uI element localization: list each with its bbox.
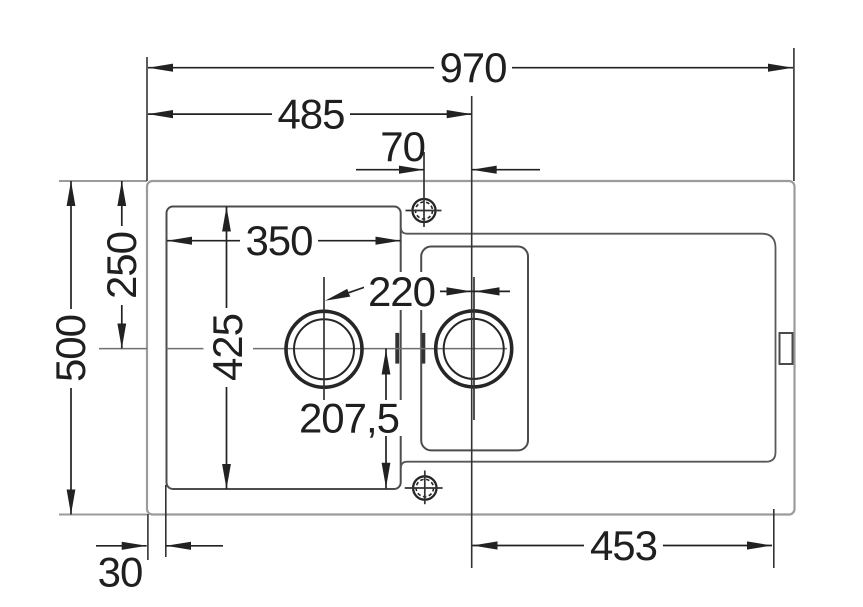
svg-text:207,5: 207,5 — [299, 395, 399, 442]
svg-text:485: 485 — [277, 91, 344, 138]
svg-text:500: 500 — [47, 315, 94, 382]
overflow slot on right rim — [780, 333, 793, 364]
dimension 70 — [356, 123, 540, 174]
extension line bowl left (x165.8) — [165, 485, 167, 557]
dimension 30 — [96, 542, 223, 596]
dimension 220 — [325, 268, 510, 315]
extension line drainer right (x773.8) — [773, 509, 775, 568]
dimension 207,5 (vertical) — [296, 349, 402, 489]
right drain circle — [436, 311, 512, 387]
svg-text:425: 425 — [204, 314, 251, 381]
svg-text:350: 350 — [245, 217, 312, 264]
svg-text:453: 453 — [590, 522, 657, 569]
svg-text:250: 250 — [98, 232, 145, 299]
drainer area outline — [401, 228, 776, 467]
dimension 350 — [167, 217, 401, 264]
right drain centre line vertical — [473, 277, 475, 420]
extension line sink bottom left (x147.9) — [147, 514, 149, 560]
dimension 250 (vertical) — [98, 181, 145, 349]
top tap hole — [413, 199, 436, 222]
left drain circle — [286, 311, 362, 387]
right half bowl — [421, 247, 528, 451]
dimension 500 (vertical) — [47, 181, 94, 515]
overflow slot left bowl — [395, 333, 399, 364]
svg-text:970: 970 — [439, 44, 506, 91]
svg-text:30: 30 — [98, 549, 143, 596]
dimension 970 — [148, 44, 793, 91]
dimension 485 — [148, 91, 472, 138]
extension line left (x147) — [146, 57, 148, 181]
svg-text:70: 70 — [380, 123, 425, 170]
left main bowl — [167, 207, 401, 490]
left drain centre line vertical — [323, 277, 325, 423]
bottom tap hole — [413, 476, 436, 499]
horizontal centre line — [99, 348, 507, 350]
extension line right (x793) — [793, 48, 795, 181]
outer sink outline — [147, 181, 795, 515]
bottom edge extension (left of sink) — [59, 514, 147, 516]
extension line centre (x471.7) — [471, 96, 473, 568]
top edge extension (left of sink) — [59, 180, 147, 182]
overflow slot right half bowl — [422, 333, 426, 364]
dimension 453 — [473, 522, 773, 569]
dimension 425 (vertical) — [204, 207, 251, 490]
svg-text:220: 220 — [368, 268, 435, 315]
